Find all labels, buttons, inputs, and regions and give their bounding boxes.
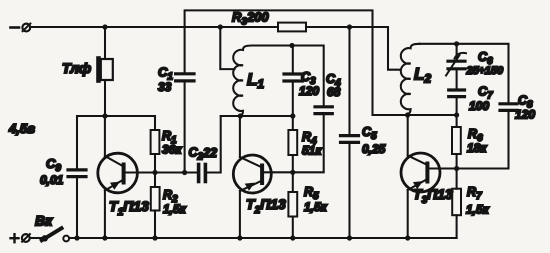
node base T3 divider [454, 166, 459, 171]
wire L1 tap feed [220, 27, 234, 69]
node Tlf top [102, 24, 107, 29]
wire tank top [252, 46, 324, 107]
svg-text:1,5к: 1,5к [163, 202, 187, 216]
wire C3 upper lead [292, 46, 294, 73]
svg-text:1,5к: 1,5к [304, 200, 328, 214]
svg-text:С5: С5 [362, 125, 377, 142]
svg-text:0,25: 0,25 [362, 142, 386, 156]
svg-text:L2: L2 [414, 65, 431, 86]
svg-text:С9: С9 [46, 156, 61, 174]
wire R5 top lead [292, 172, 294, 192]
node emitter T3 bottom [405, 235, 410, 240]
capacitor C9 [68, 170, 86, 177]
wire R2 bottom lead [154, 211, 156, 239]
node L1 bottom [238, 113, 243, 118]
wire C6 upper lead [456, 44, 458, 60]
capacitor C4 [315, 107, 332, 114]
wire emitter T2 [239, 191, 241, 238]
wire R1 bottom lead [154, 154, 156, 173]
svg-text:Т1П13: Т1П13 [109, 198, 149, 218]
node L2 bottom [405, 112, 410, 117]
wire collector bus T3 [373, 114, 457, 116]
resistor R3 [278, 23, 306, 32]
svg-text:100: 100 [469, 99, 489, 113]
node C9 bottom [74, 235, 79, 240]
wire bias horizontal [77, 115, 155, 117]
node C1 base junction [182, 170, 187, 175]
svg-text:4,5в: 4,5в [8, 121, 35, 136]
node base T1 divider [152, 170, 157, 175]
wire collector T2 [239, 116, 241, 157]
wire L2 top [420, 44, 509, 102]
wire C5 lower lead [348, 144, 350, 238]
svg-text:Вк: Вк [35, 213, 53, 229]
capacitor C6 trimmer [446, 53, 466, 76]
node collector T1 junction [102, 113, 107, 118]
svg-text:L1: L1 [247, 70, 264, 91]
wire collector bus T2 [221, 115, 293, 117]
wire R7 bottom lead [456, 215, 458, 238]
capacitor C7 [449, 90, 465, 97]
svg-text:120: 120 [515, 108, 535, 122]
svg-text:R3200: R3200 [232, 10, 269, 28]
resistor R4 [288, 130, 297, 155]
transistor T2 [233, 155, 271, 193]
wire collector T1 [104, 116, 106, 156]
wire R1 top lead [154, 116, 156, 130]
capacitor C5 [341, 136, 359, 143]
svg-text:36к: 36к [162, 143, 182, 157]
node C7 bus [454, 112, 459, 117]
node L1 rail [218, 24, 223, 29]
wire base T2 [264, 171, 293, 173]
resistor R2 [151, 187, 160, 211]
node base T2 divider [290, 170, 295, 175]
wire top rail right of R3 [306, 26, 388, 28]
headphone Tlf [96, 56, 113, 83]
svg-text:Тлф: Тлф [62, 60, 91, 76]
terminal plus [11, 234, 30, 242]
wire emitter T3 [407, 190, 409, 238]
svg-text:1,5к: 1,5к [466, 203, 490, 217]
wire R7 top lead [456, 169, 458, 189]
wire C4 branch [293, 115, 324, 173]
capacitor C3 [284, 74, 302, 81]
node C6 top [454, 41, 459, 46]
svg-text:Т2П13: Т2П13 [246, 196, 286, 216]
wire C1 lower lead [184, 82, 186, 173]
svg-text:33: 33 [158, 80, 172, 94]
svg-text:С222: С222 [189, 145, 218, 162]
capacitor C8 [500, 104, 517, 111]
wire C3 lower lead [292, 83, 294, 117]
terminal minus [11, 24, 31, 32]
node emitter T1 bottom [102, 235, 107, 240]
svg-text:120: 120 [299, 84, 319, 98]
wire C8 lower lead [430, 112, 509, 169]
wire R4 top lead [292, 116, 294, 130]
wire R6 bottom lead [456, 154, 458, 169]
capacitor C1 [176, 74, 194, 81]
wire C9 upper lead [76, 116, 78, 168]
svg-text:68: 68 [327, 85, 341, 99]
wire C7 lower lead [456, 98, 458, 115]
wire C6 C7 link [456, 70, 458, 89]
wire emitter T1 [104, 191, 106, 239]
node C5 bottom [347, 235, 352, 240]
wire Tlf bottom lead [104, 80, 106, 116]
node C3 top [289, 43, 294, 48]
switch Vk [30, 228, 69, 241]
wire Tlf top lead [104, 27, 106, 58]
svg-text:51к: 51к [302, 144, 322, 158]
node bus R4 [290, 113, 295, 118]
inductor L1 [233, 46, 252, 116]
resistor R5 [288, 192, 297, 217]
node C5 rail [347, 24, 352, 29]
wire R5 bottom lead [292, 217, 294, 239]
wire C9 lower lead [76, 178, 78, 238]
transistor T1 [98, 153, 138, 193]
wire R2 top lead [154, 173, 156, 188]
resistor R6 [452, 127, 461, 154]
resistor R7 [452, 189, 461, 216]
wire C5 upper lead [348, 27, 350, 135]
node R2 bottom [152, 235, 157, 240]
inductor L2 [401, 44, 420, 115]
wire C2 right lead [207, 116, 221, 173]
wire bottom rail [69, 237, 457, 239]
capacitor C2 [199, 165, 206, 182]
svg-text:0,01: 0,01 [40, 173, 64, 187]
wire top loop [185, 10, 373, 115]
transistor T3 [401, 153, 440, 192]
svg-text:Т3П13: Т3П13 [413, 186, 453, 206]
wire R6 top lead [456, 115, 458, 127]
wire base T3 [429, 167, 456, 169]
wire base T1 [124, 171, 197, 173]
wire collector T3 [407, 115, 409, 156]
wire top rail left [30, 26, 278, 28]
node R5 bottom [290, 235, 295, 240]
svg-text:25÷150: 25÷150 [466, 65, 505, 77]
wire L2 tap feed [388, 27, 401, 70]
resistor R1 [151, 130, 160, 154]
svg-text:18к: 18к [467, 141, 487, 155]
node emitter T2 bottom [237, 235, 242, 240]
svg-text:R7: R7 [467, 185, 482, 202]
wire R4 bottom lead [292, 155, 294, 172]
